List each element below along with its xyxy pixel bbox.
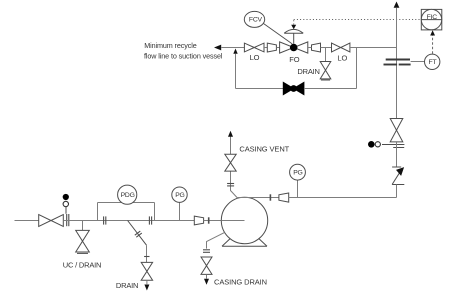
- casing drain flange pair: [203, 249, 210, 251]
- valve: casing drain: [201, 257, 212, 274]
- svg-text:LO: LO: [250, 53, 260, 62]
- instrument PG (suction): [172, 187, 187, 202]
- pump impeller line: [221, 220, 244, 222]
- valve LO2 (gate, locked open): [332, 43, 350, 52]
- valve: casing vent: [225, 154, 236, 171]
- wire: discharge run to riser: [289, 197, 397, 199]
- svg-text:flow line to suction vessel: flow line to suction vessel: [144, 51, 223, 60]
- reducer into pump suction: [194, 216, 203, 225]
- valve: suction gate: [39, 215, 64, 227]
- signal line to FIC (dashed): [293, 20, 295, 25]
- instrument FIC (shared display): [421, 9, 442, 30]
- arrow: casing drain outlet: [204, 279, 209, 285]
- orifice plate flanges: [386, 59, 410, 61]
- valve: UC drain: [76, 230, 90, 252]
- actuator diaphragm: [284, 29, 303, 33]
- wire: casing vent riser: [231, 137, 238, 199]
- arrow: drain outlet: [144, 285, 149, 291]
- signal FT to FIC (dashed arrow): [432, 35, 434, 54]
- wire: suction from battery limit: [15, 220, 39, 222]
- wire: bypass bottom right: [304, 88, 357, 90]
- flange tick on discharge: [269, 194, 271, 200]
- instrument PDG: [118, 185, 137, 204]
- spectacle blind solid disc: [63, 194, 69, 200]
- instrument PG (discharge): [290, 164, 306, 180]
- svg-text:FIC: FIC: [427, 14, 438, 21]
- leader FCV balloon to valve: [264, 24, 293, 44]
- wire: bypass left vertical: [235, 54, 237, 89]
- arrow: bypass into header: [233, 49, 237, 54]
- wire: strainer drain drop: [146, 245, 148, 262]
- wire: riser upper: [396, 8, 398, 119]
- signal arrow onto actuator: [291, 25, 296, 30]
- reducer into FCV: [267, 43, 276, 52]
- flange tick on pump suction: [208, 217, 210, 223]
- svg-text:PG: PG: [293, 170, 302, 177]
- arrow to suction vessel: [214, 45, 221, 51]
- valve: header drain: [320, 62, 331, 79]
- expander out of FCV: [312, 43, 321, 52]
- spectacle blind flange lines: [382, 144, 404, 146]
- svg-text:FT: FT: [429, 59, 437, 66]
- valve LO1 (gate, locked open): [244, 43, 264, 52]
- instrument balloon FCV: [244, 11, 264, 27]
- svg-text:PG: PG: [175, 192, 184, 199]
- control valve FCV body (FO): [280, 42, 308, 53]
- wire: orifice tap to FT: [411, 61, 425, 63]
- wire: drain outlet: [146, 280, 148, 284]
- strainer inlet flange pair: [103, 216, 105, 224]
- arrow: vent outlet: [228, 131, 233, 137]
- strainer drain flange ticks: [135, 231, 141, 235]
- spectacle blind at suction (stem): [65, 206, 67, 214]
- svg-text:CASING VENT: CASING VENT: [239, 145, 289, 154]
- svg-text:CASING DRAIN: CASING DRAIN: [214, 277, 267, 286]
- strainer outlet flange pair: [148, 216, 150, 224]
- instrument FT: [425, 54, 440, 69]
- vent flange pair: [227, 183, 234, 185]
- svg-text:PDG: PDG: [121, 192, 135, 199]
- wire: riser lower: [396, 185, 398, 198]
- svg-text:FO: FO: [289, 55, 299, 64]
- wire: casing drain elbow: [207, 232, 225, 248]
- valve: riser gate: [390, 119, 403, 142]
- wire: header drain drop: [325, 48, 327, 62]
- strainer cone (diagonal): [128, 221, 147, 246]
- wire: casing drain outlet: [206, 274, 208, 278]
- spectacle blind open ring: [63, 201, 68, 206]
- svg-text:Minimum recycle: Minimum recycle: [144, 41, 197, 50]
- wire: header segment 6: [350, 47, 397, 49]
- wire: UC drain drop: [82, 221, 84, 231]
- valve: strainer drain: [141, 262, 152, 280]
- wire: PG suction tap: [179, 202, 181, 220]
- pump casing (circle): [221, 197, 267, 243]
- wire: PG discharge tap: [297, 180, 299, 198]
- actuator stem: [293, 33, 295, 44]
- svg-text:DRAIN: DRAIN: [297, 67, 319, 76]
- flange pair after suction valve: [66, 214, 68, 226]
- wire: header segment 1: [221, 47, 244, 49]
- wire: suction spool to pump: [204, 220, 245, 222]
- svg-text:DRAIN: DRAIN: [116, 281, 138, 290]
- pump baseplate: [222, 239, 267, 247]
- wire: discharge run: [238, 197, 279, 199]
- svg-text:FCV: FCV: [249, 17, 263, 24]
- wire: riser mid: [396, 142, 398, 167]
- wire: header segment 5: [321, 47, 332, 49]
- spectacle blind (closed) circles: [368, 141, 375, 148]
- svg-text:LO: LO: [337, 53, 347, 62]
- wire: header segment 4: [308, 47, 312, 49]
- wire: suction to strainer: [63, 220, 194, 222]
- arrow: riser top: [394, 2, 400, 8]
- wire: bypass right vertical: [356, 48, 358, 89]
- wire: header segment 2: [264, 47, 267, 49]
- expander on discharge: [279, 193, 289, 202]
- wire: header segment 3: [276, 47, 279, 49]
- valve: bypass globe (closed, filled): [283, 82, 304, 94]
- wire: PDG tap loop: [97, 203, 99, 221]
- svg-text:UC / DRAIN: UC / DRAIN: [63, 260, 101, 269]
- check valve on riser: [392, 166, 401, 168]
- wire: bypass bottom left: [236, 88, 284, 90]
